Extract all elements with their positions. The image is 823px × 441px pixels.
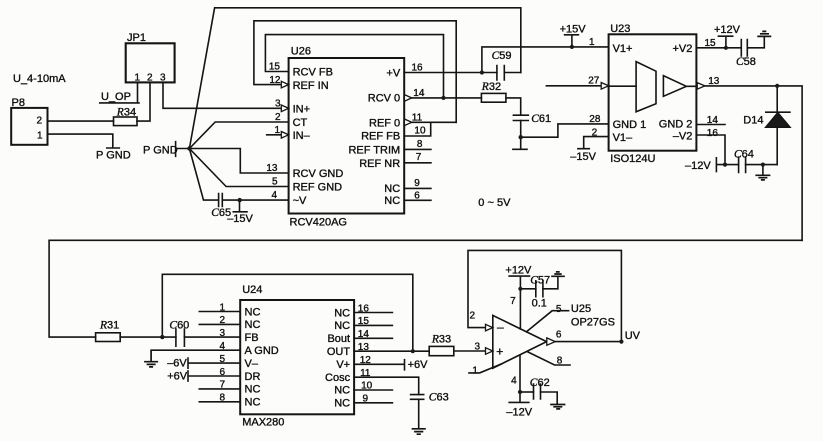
svg-text:1: 1 xyxy=(219,302,225,313)
svg-text:2: 2 xyxy=(219,315,225,326)
svg-text:0.1: 0.1 xyxy=(532,298,547,310)
svg-text:RCV GND: RCV GND xyxy=(293,168,344,180)
svg-text:13: 13 xyxy=(266,163,278,174)
svg-text:P GND: P GND xyxy=(96,150,131,162)
svg-text:FB: FB xyxy=(245,332,259,344)
svg-text:REF 0: REF 0 xyxy=(369,117,400,129)
svg-text:NC: NC xyxy=(384,195,400,207)
svg-text:RCV 0: RCV 0 xyxy=(368,93,400,105)
svg-text:4: 4 xyxy=(219,341,225,352)
svg-text:NC: NC xyxy=(245,397,261,409)
svg-text:CT: CT xyxy=(293,117,308,129)
svg-text:NC: NC xyxy=(334,385,350,397)
svg-text:A GND: A GND xyxy=(245,345,279,357)
svg-text:3: 3 xyxy=(474,342,480,353)
svg-text:+6V: +6V xyxy=(408,359,429,371)
svg-text:8: 8 xyxy=(417,139,423,150)
svg-text:C63: C63 xyxy=(429,391,449,403)
svg-text:27: 27 xyxy=(588,75,600,86)
svg-text:9: 9 xyxy=(414,178,420,189)
svg-text:5: 5 xyxy=(272,177,278,188)
svg-text:5: 5 xyxy=(219,354,225,365)
svg-text:ISO124U: ISO124U xyxy=(610,153,655,165)
svg-text:+6V: +6V xyxy=(167,371,188,383)
svg-text:C62: C62 xyxy=(530,377,550,389)
svg-text:JP1: JP1 xyxy=(127,32,146,44)
svg-text:15: 15 xyxy=(358,316,370,327)
svg-text:1: 1 xyxy=(274,125,280,136)
svg-text:6: 6 xyxy=(556,330,562,341)
svg-text:C64: C64 xyxy=(734,148,754,160)
svg-text:2: 2 xyxy=(275,112,281,123)
svg-text:MAX280: MAX280 xyxy=(242,417,284,429)
svg-text:12: 12 xyxy=(269,75,281,86)
svg-text:IN–: IN– xyxy=(293,130,311,142)
svg-text:+V: +V xyxy=(386,68,400,80)
svg-text:4: 4 xyxy=(271,190,277,201)
svg-text:10: 10 xyxy=(361,381,373,392)
svg-text:2: 2 xyxy=(469,311,475,322)
svg-text:C58: C58 xyxy=(736,56,756,68)
svg-text:6: 6 xyxy=(219,367,225,378)
svg-text:REF TRIM: REF TRIM xyxy=(348,144,400,156)
svg-text:–15V: –15V xyxy=(570,151,596,163)
svg-text:12: 12 xyxy=(360,355,372,366)
svg-text:REF FB: REF FB xyxy=(361,131,400,143)
svg-text:13: 13 xyxy=(358,342,370,353)
svg-text:R32: R32 xyxy=(481,81,501,93)
svg-text:GND 1: GND 1 xyxy=(613,119,647,131)
svg-text:–V2: –V2 xyxy=(673,131,693,143)
svg-text:V–: V– xyxy=(245,358,259,370)
svg-text:14: 14 xyxy=(358,329,370,340)
svg-text:4: 4 xyxy=(511,375,517,386)
svg-text:13: 13 xyxy=(708,76,720,87)
svg-text:+: + xyxy=(496,344,503,358)
svg-text:NC: NC xyxy=(245,384,261,396)
svg-text:NC: NC xyxy=(334,307,350,319)
svg-text:U26: U26 xyxy=(291,46,311,58)
svg-text:R31: R31 xyxy=(99,320,119,332)
svg-text:NC: NC xyxy=(245,319,261,331)
svg-text:16: 16 xyxy=(358,303,370,314)
svg-text:NC: NC xyxy=(334,398,350,410)
svg-text:16: 16 xyxy=(707,128,719,139)
svg-text:3: 3 xyxy=(160,73,166,84)
svg-text:11: 11 xyxy=(412,112,423,123)
svg-text:5: 5 xyxy=(556,304,562,315)
svg-text:U24: U24 xyxy=(242,284,262,296)
svg-text:UV: UV xyxy=(625,330,641,342)
svg-text:RCV FB: RCV FB xyxy=(293,67,333,79)
svg-text:C65: C65 xyxy=(211,207,231,219)
svg-text:U_4-10mA: U_4-10mA xyxy=(13,73,66,85)
svg-text:C60: C60 xyxy=(169,320,189,332)
svg-text:REF NR: REF NR xyxy=(359,158,400,170)
svg-text:C61: C61 xyxy=(531,113,551,125)
svg-text:~V: ~V xyxy=(293,195,307,207)
svg-text:1: 1 xyxy=(135,73,141,84)
svg-text:16: 16 xyxy=(412,63,424,74)
svg-text:+12V: +12V xyxy=(505,265,532,277)
svg-text:–6V: –6V xyxy=(167,358,187,370)
svg-text:1: 1 xyxy=(37,131,43,142)
svg-text:28: 28 xyxy=(589,114,601,125)
svg-text:P8: P8 xyxy=(12,97,25,109)
svg-text:8: 8 xyxy=(557,355,563,366)
svg-text:GND 2: GND 2 xyxy=(659,119,693,131)
svg-text:D14: D14 xyxy=(743,115,763,127)
svg-text:2: 2 xyxy=(147,73,153,84)
svg-text:14: 14 xyxy=(707,115,719,126)
svg-text:U23: U23 xyxy=(610,23,630,35)
svg-text:15: 15 xyxy=(705,38,717,49)
svg-text:OP27GS: OP27GS xyxy=(571,317,615,329)
svg-text:15: 15 xyxy=(269,62,281,73)
svg-text:2: 2 xyxy=(36,116,42,127)
svg-text:NC: NC xyxy=(245,306,261,318)
svg-text:RCV420AG: RCV420AG xyxy=(290,217,347,229)
svg-text:7: 7 xyxy=(416,152,422,163)
svg-text:7: 7 xyxy=(510,296,516,307)
svg-text:–15V: –15V xyxy=(227,213,253,225)
svg-text:+V2: +V2 xyxy=(673,43,693,55)
svg-text:3: 3 xyxy=(219,328,225,339)
svg-text:–12V: –12V xyxy=(685,160,711,172)
svg-text:1: 1 xyxy=(472,365,478,376)
svg-text:V1+: V1+ xyxy=(613,43,633,55)
svg-text:0 ~ 5V: 0 ~ 5V xyxy=(478,197,511,209)
svg-text:DR: DR xyxy=(245,371,261,383)
svg-text:U_OP: U_OP xyxy=(101,91,131,103)
svg-text:1: 1 xyxy=(589,37,595,48)
svg-text:C57: C57 xyxy=(530,274,550,286)
svg-text:NC: NC xyxy=(334,320,350,332)
svg-text:2: 2 xyxy=(592,127,598,138)
svg-text:–12V: –12V xyxy=(506,407,532,419)
svg-text:R34: R34 xyxy=(116,107,136,119)
svg-text:10: 10 xyxy=(414,126,426,137)
svg-text:9: 9 xyxy=(363,394,369,405)
svg-text:8: 8 xyxy=(219,393,225,404)
svg-text:3: 3 xyxy=(275,99,281,110)
svg-text:REF GND: REF GND xyxy=(293,182,343,194)
svg-text:7: 7 xyxy=(219,380,225,391)
svg-text:V1–: V1– xyxy=(613,132,633,144)
svg-text:14: 14 xyxy=(413,88,425,99)
svg-text:P GND: P GND xyxy=(143,145,178,157)
svg-text:–: – xyxy=(497,320,504,334)
svg-text:Cosc: Cosc xyxy=(325,372,351,384)
svg-text:V+: V+ xyxy=(336,359,350,371)
svg-text:IN+: IN+ xyxy=(293,104,310,116)
svg-text:6: 6 xyxy=(414,190,420,201)
svg-text:R33: R33 xyxy=(431,333,451,345)
svg-text:NC: NC xyxy=(384,183,400,195)
svg-text:Bout: Bout xyxy=(327,333,350,345)
svg-text:REF IN: REF IN xyxy=(293,80,329,92)
svg-text:U25: U25 xyxy=(571,303,591,315)
svg-text:C59: C59 xyxy=(492,50,512,62)
svg-text:11: 11 xyxy=(360,368,371,379)
svg-text:OUT: OUT xyxy=(327,346,351,358)
svg-text:+12V: +12V xyxy=(714,24,741,36)
svg-text:+15V: +15V xyxy=(560,24,587,36)
